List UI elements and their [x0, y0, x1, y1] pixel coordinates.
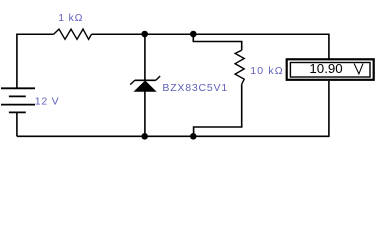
svg-text:12 V: 12 V [35, 95, 60, 107]
voltmeter M1 outer case [287, 59, 374, 80]
svg-text:BZX83C5V1: BZX83C5V1 [162, 82, 228, 94]
node C junction dot (zener/bottom rail) [141, 133, 148, 140]
wire: R2 bottom to node D [194, 84, 242, 136]
wire: bottom rail [17, 81, 329, 136]
battery V1 plate 3 long [1, 104, 35, 106]
resistor R2 10 kOhm vertical zigzag [235, 50, 244, 84]
wire: node A down to zener cathode [144, 34, 146, 80]
zener diode D1 cathode bar [135, 79, 156, 81]
svg-text:10 kΩ: 10 kΩ [250, 65, 283, 77]
zener D1 anode triangle [135, 81, 156, 92]
wire: node B down-right to R2 top [193, 34, 241, 50]
wire: battery negative to bottom rail [16, 112, 18, 136]
svg-text:1 kΩ: 1 kΩ [58, 12, 83, 24]
battery V1 plate 2 short [9, 95, 26, 97]
wire: node A to node B [145, 33, 194, 35]
svg-text:10.90: 10.90 [309, 61, 342, 76]
wire: zener anode to bottom rail [144, 91, 146, 136]
wire: node B to voltmeter top [193, 34, 329, 59]
wire: left vertical + top rail to R1 [17, 34, 54, 88]
node D junction dot (R2/bottom rail) [190, 133, 197, 140]
voltmeter M1 V unit glyph [354, 64, 363, 74]
node B junction dot [190, 31, 197, 38]
zener D1 left bend tick [130, 80, 135, 84]
voltmeter M1 inner display bezel [290, 63, 370, 78]
wire: R1 to node A [92, 33, 145, 35]
resistor R1 1 kOhm zigzag [54, 29, 92, 39]
battery V1 plate 1 long (+) [1, 87, 35, 89]
battery V1 plate 4 short (-) [9, 111, 26, 113]
node A junction dot [141, 31, 148, 38]
zener D1 right bend tick [156, 76, 160, 80]
